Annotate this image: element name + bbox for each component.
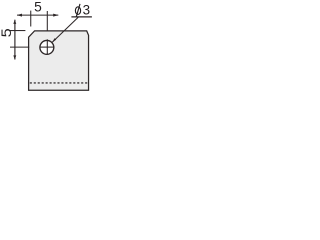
phi symbol stroke	[76, 4, 80, 17]
hidden dashed line	[30, 82, 88, 84]
left dim extension bottom / centerline left	[10, 46, 29, 48]
svg-text:3: 3	[83, 3, 90, 18]
left dim up arrowhead	[13, 20, 16, 24]
phi symbol ellipse	[75, 7, 80, 15]
left dim down arrowhead	[13, 55, 16, 59]
hole circle C (d=3)	[40, 40, 54, 54]
top dim extension line A (plate left reference)	[30, 11, 32, 27]
svg-text:5: 5	[0, 28, 15, 37]
top dim right arrowhead	[53, 14, 58, 17]
leader curved line	[52, 17, 78, 42]
left dim extension top	[10, 30, 25, 32]
leader arrowhead at circle	[52, 38, 56, 42]
top dim left arrowhead	[17, 14, 22, 17]
top dim extension line B (hole centerline up)	[46, 11, 48, 32]
top dimension line	[17, 14, 58, 16]
plate body	[29, 31, 89, 90]
leader underline	[71, 16, 92, 18]
left dimension line	[14, 20, 16, 60]
svg-text:5: 5	[34, 0, 42, 15]
hole centerline vertical (crosshair)	[46, 39, 48, 54]
hole centerline horizontal (crosshair)	[40, 46, 55, 48]
